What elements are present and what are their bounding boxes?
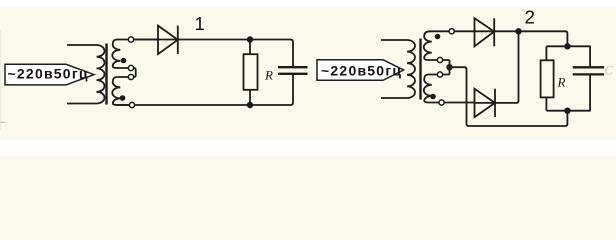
wire through diode VD3	[475, 102, 496, 104]
transformer T2 secondary winding bottom	[424, 75, 475, 103]
transformer T2 core	[419, 39, 421, 100]
transformer T2 primary winding	[407, 40, 415, 98]
diode VD1 cathode bar	[177, 26, 179, 54]
capacitor C1 top plate	[278, 66, 308, 68]
junction dot circuit1 bottom	[247, 102, 253, 108]
junction dot center tap	[446, 64, 452, 70]
wire resistor bottom stub	[249, 90, 251, 105]
polarity dot T1 bottom	[120, 95, 126, 101]
terminal circle T1 sec top	[128, 37, 133, 42]
source label box V2	[317, 60, 404, 81]
terminal circle T2 sec mid1	[437, 57, 442, 62]
capacitor C2 top plate	[573, 66, 604, 68]
svg-text:2: 2	[525, 6, 535, 27]
wire top rail diode to corner	[178, 40, 293, 68]
wire primary top stub	[381, 39, 407, 41]
edge artifact bottom-left dash	[0, 122, 5, 124]
junction dot circuit1 top	[247, 36, 253, 42]
diode VD3 cathode bar	[494, 89, 496, 117]
capacitor C2 bottom plate	[573, 73, 604, 75]
svg-text:1: 1	[195, 13, 205, 34]
svg-text:C: C	[605, 63, 614, 78]
wire primary bottom stub	[67, 103, 97, 105]
wire top diode out to load	[494, 31, 567, 46]
wire load top rail	[546, 45, 590, 47]
junction dot diode join	[515, 28, 521, 34]
terminal circle T2 sec mid2	[437, 72, 442, 77]
polarity dot T2 bottom	[430, 94, 436, 100]
wire load bottom rail	[546, 110, 590, 112]
junction dot load top	[564, 43, 570, 49]
terminal circle T2 sec bottom	[439, 100, 444, 105]
diode VD1	[158, 26, 178, 54]
transformer T1 primary winding	[97, 45, 105, 104]
wire center tap return	[450, 67, 568, 126]
svg-text:R: R	[264, 68, 273, 83]
wire primary bottom stub	[381, 97, 407, 99]
terminal circle T1 sec bottom	[129, 102, 134, 107]
diode VD3 bottom	[475, 89, 496, 117]
junction dot load bottom	[564, 108, 570, 114]
resistor R2 body	[541, 60, 554, 97]
wire C2 bottom stub	[589, 74, 591, 110]
transformer T1 secondary winding bottom	[112, 77, 132, 105]
resistor R1 body	[244, 54, 258, 90]
wire center tap vertical	[449, 60, 451, 75]
diode VD2 cathode bar	[493, 18, 495, 46]
svg-text:~220в50гц: ~220в50гц	[321, 62, 401, 78]
wire through diode VD2	[475, 30, 495, 32]
transformer T1 secondary winding top	[112, 40, 158, 69]
wire R2 top stub	[545, 46, 547, 60]
svg-text:~220в50гц: ~220в50гц	[8, 65, 88, 81]
wire primary top stub	[67, 44, 97, 46]
top white band	[0, 0, 616, 7]
wire cap to bottom corner	[116, 74, 293, 105]
source label box V1	[5, 64, 94, 85]
wire top rail to diode	[131, 39, 178, 41]
bottom white band	[0, 140, 616, 156]
wire R2 bottom stub	[545, 97, 547, 110]
svg-text:R: R	[557, 75, 566, 90]
wire resistor top stub	[249, 40, 251, 55]
transformer T1 core	[105, 44, 107, 105]
terminal circle T1 sec mid2	[128, 74, 133, 79]
polarity dot T2 top	[435, 34, 441, 40]
wire C2 top stub	[589, 46, 591, 67]
edge artifact left	[0, 30, 1, 130]
terminal circle T1 sec mid1	[128, 65, 133, 70]
terminal circle T2 sec top	[449, 29, 454, 34]
wire secondary series jumper	[131, 68, 136, 77]
diode VD2 top	[475, 18, 495, 46]
wire bottom diode out and up	[495, 31, 519, 103]
capacitor C1 bottom plate	[278, 73, 308, 75]
polarity dot T1 top	[121, 58, 127, 64]
transformer T2 secondary winding top	[424, 31, 475, 60]
